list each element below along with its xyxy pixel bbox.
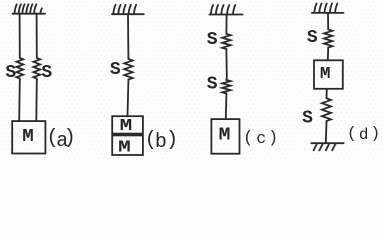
wire upper-left (a) <box>19 14 21 57</box>
svg-text:M: M <box>320 65 331 84</box>
wire above box (d) <box>327 49 329 61</box>
wire upper (d) <box>327 13 329 29</box>
ceiling (c) <box>209 5 242 14</box>
svg-text:M: M <box>120 117 133 136</box>
mass M box (a) <box>12 121 45 153</box>
svg-text:S: S <box>307 28 318 48</box>
mass M box (d) <box>314 60 343 89</box>
svg-text:): ) <box>371 125 381 143</box>
wire lower (b) <box>127 81 130 117</box>
wire to floor (d) <box>325 122 328 143</box>
ceiling (a) <box>13 4 46 13</box>
wire lower (c) <box>225 95 228 120</box>
floor (d) <box>311 143 343 150</box>
caption (d) <box>347 125 380 144</box>
svg-text:(: ( <box>243 128 253 147</box>
wire upper (c) <box>225 15 227 34</box>
svg-text:S: S <box>110 60 121 80</box>
wire middle (c) <box>225 50 227 79</box>
ceiling (d) <box>312 4 344 13</box>
wire upper-right (a) <box>36 14 38 57</box>
svg-text:S: S <box>41 63 52 83</box>
wire upper (b) <box>127 14 129 58</box>
svg-text:S: S <box>5 63 16 83</box>
spring S right (a) <box>33 57 40 80</box>
svg-text:S: S <box>207 30 218 50</box>
spring S (b) <box>124 58 132 81</box>
spring S upper (c) <box>222 33 230 50</box>
svg-text:M: M <box>22 127 34 147</box>
svg-text:(: ( <box>347 125 357 143</box>
svg-text:S: S <box>302 109 313 129</box>
mass M box (c) <box>211 119 239 154</box>
spring S lower (d) <box>322 97 331 122</box>
wire below box (d) <box>326 89 328 98</box>
svg-text:c: c <box>256 129 266 148</box>
wire lower-right (a) <box>35 80 38 122</box>
svg-text:): ) <box>268 128 278 147</box>
svg-text:): ) <box>64 127 76 150</box>
spring S upper (d) <box>324 29 332 49</box>
mass M upper box (b) <box>112 116 143 133</box>
spring S left (a) <box>16 57 23 80</box>
svg-text:M: M <box>118 138 131 157</box>
spring S lower (c) <box>222 79 230 95</box>
wire lower-left (a) <box>18 80 21 122</box>
svg-text:S: S <box>207 74 218 94</box>
svg-text:d: d <box>359 126 369 144</box>
ceiling (b) <box>112 5 144 14</box>
caption (b) <box>145 129 178 154</box>
svg-text:): ) <box>166 129 178 152</box>
mass M lower box (b) <box>112 135 143 155</box>
caption (a) <box>47 127 76 153</box>
svg-text:M: M <box>219 126 231 146</box>
caption (c) <box>243 128 278 148</box>
